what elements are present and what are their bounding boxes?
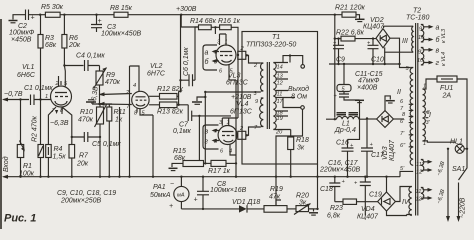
diode VD1: [239, 205, 247, 212]
svg-text:−: −: [170, 181, 174, 188]
tube VL2: [132, 91, 149, 108]
svg-text:100мкФ: 100мкФ: [9, 30, 35, 37]
node L1/VD3: [366, 117, 368, 119]
ground bus: [4, 176, 401, 178]
capacitor C17: [361, 118, 373, 176]
svg-text:~220В: ~220В: [460, 197, 467, 218]
wire: VD2 top to T2 winding III: [384, 26, 414, 28]
heater loop VL3: [203, 45, 217, 70]
svg-text:R18: R18: [296, 137, 309, 144]
wire: VD3 top: [385, 96, 390, 111]
svg-text:С19: С19: [369, 192, 382, 199]
svg-text:к VL3: к VL3: [441, 28, 447, 43]
svg-text:VL2: VL2: [150, 63, 163, 70]
potentiometer R9: [99, 66, 101, 105]
svg-text:ТПП303-220-50: ТПП303-220-50: [246, 42, 296, 49]
potentiometer R1: [20, 100, 22, 177]
svg-text:R8 15к: R8 15к: [110, 5, 133, 12]
svg-text:1,5к: 1,5к: [53, 154, 67, 161]
svg-text:6,8к: 6,8к: [327, 213, 341, 220]
svg-text:R16 1к: R16 1к: [218, 18, 241, 25]
node: R6/C4: [63, 64, 65, 66]
svg-text:+: +: [98, 18, 102, 25]
svg-text:47к: 47к: [269, 194, 281, 201]
T2 winding II: [410, 68, 413, 166]
wire top bus right: [128, 14, 342, 16]
svg-text:РА1: РА1: [153, 184, 166, 191]
resistor R11: [107, 107, 112, 121]
resistor R4: [48, 107, 56, 177]
T2 heater winding 11"/12": [421, 188, 424, 200]
potentiometer R10: [97, 107, 104, 124]
svg-text:R23: R23: [330, 205, 343, 212]
T1 secondary taps: [273, 63, 295, 130]
wire: T1 pin3 to +210V node: [205, 91, 260, 93]
svg-text:6Н7С: 6Н7С: [147, 71, 166, 78]
svg-text:R20: R20: [296, 193, 309, 200]
svg-text:С6 0,1мк: С6 0,1мк: [183, 47, 190, 76]
lamp HL1: [423, 141, 456, 142]
svg-text:С1 0,1мк: С1 0,1мк: [24, 85, 53, 92]
capacitor C9: [337, 37, 339, 39]
T2 core: [416, 23, 418, 216]
T1 core: [267, 62, 269, 129]
capacitor C19: [360, 177, 371, 216]
svg-text:R10: R10: [80, 109, 93, 116]
svg-text:С16: С16: [336, 140, 349, 147]
wire top bus left: [39, 14, 45, 16]
resistor R21: [334, 14, 336, 16]
wire / ground hook near R10: [92, 103, 112, 105]
capacitor C3: [91, 15, 102, 32]
svg-text:С17: С17: [371, 152, 385, 159]
wire: [60, 14, 114, 16]
svg-text:а: а: [205, 50, 209, 57]
svg-text:R15: R15: [173, 148, 186, 155]
trimmer R20: [287, 208, 296, 210]
svg-text:~6,3В: ~6,3В: [50, 120, 69, 127]
wire: long verticals to ground bus: [120, 66, 154, 177]
svg-text:С10: С10: [371, 57, 384, 64]
node: R5/R6 junction: [63, 14, 65, 16]
svg-text:II: II: [397, 89, 401, 96]
inductor L1: [337, 112, 359, 114]
resistor R6: [63, 15, 65, 66]
svg-text:200мк×250В: 200мк×250В: [60, 198, 102, 205]
svg-text:R6: R6: [69, 35, 78, 42]
tube VL4: [218, 126, 237, 145]
diode bridge VD3: [377, 111, 394, 128]
resistor R2: [40, 100, 42, 177]
wire: VD4 bottom: [387, 211, 407, 216]
svg-text:в: в: [205, 129, 209, 136]
resistor R22: [335, 38, 341, 40]
capacitor C1: [31, 95, 51, 106]
capacitor C2: [19, 10, 39, 21]
svg-text:ТС-180: ТС-180: [406, 15, 429, 22]
capacitor C8: [197, 177, 209, 209]
svg-text:0,1мк: 0,1мк: [173, 128, 192, 135]
svg-text:III: III: [402, 38, 408, 45]
wire: R12/R13 right join: [177, 91, 188, 105]
resistor R15: [183, 161, 204, 167]
resistor R17: [204, 162, 212, 164]
ground (top-left, C2): [13, 15, 19, 20]
svg-text:12: 12: [277, 81, 284, 87]
T2 winding III: [412, 26, 414, 52]
svg-text:20к: 20к: [68, 42, 81, 49]
capacitor C7: [188, 105, 231, 121]
T2 heater winding a/b: [421, 25, 424, 42]
wire: mains second lead with arrow: [447, 149, 449, 218]
T2 primary winding I: [423, 89, 426, 141]
capacitor block C11-C15: [343, 64, 345, 85]
svg-text:R14 68к: R14 68к: [190, 18, 217, 25]
meter PA1: [180, 177, 182, 209]
svg-text:+: +: [31, 15, 35, 22]
wire: VL3 anode to T1 pin2: [238, 51, 246, 59]
resistor R8: [114, 12, 128, 17]
svg-text:11': 11': [416, 189, 424, 195]
svg-text:11: 11: [277, 92, 283, 98]
svg-text:8 Ом: 8 Ом: [291, 94, 307, 101]
svg-text:20к: 20к: [76, 161, 89, 168]
scan edge artifact: [0, 19, 2, 229]
wire: C6 to R14 branch vertical: [195, 27, 199, 80]
svg-text:10: 10: [418, 35, 425, 41]
svg-text:R21 120к: R21 120к: [335, 5, 365, 12]
svg-text:Т2: Т2: [413, 8, 421, 15]
svg-text:Вход: Вход: [2, 156, 10, 172]
T1 secondary winding: [273, 63, 276, 130]
svg-text:КЦ407: КЦ407: [389, 139, 396, 161]
potentiometer R19: [264, 206, 287, 213]
svg-text:6П13С: 6П13С: [230, 109, 253, 116]
svg-text:1: 1: [45, 94, 48, 100]
svg-text:КЦ407: КЦ407: [357, 214, 379, 221]
svg-text:г: г: [205, 139, 209, 146]
node: C3 junction: [95, 14, 97, 16]
svg-text:VD4: VD4: [361, 206, 375, 213]
capacitor C10: [372, 37, 374, 39]
svg-text:×450В: ×450В: [11, 37, 32, 44]
wire: ground bus right end to T2 tap 5': [400, 171, 407, 176]
resistor R7: [62, 107, 72, 177]
capacitor C18: [334, 176, 336, 178]
svg-text:Т1: Т1: [272, 34, 280, 41]
svg-text:~0,7В: ~0,7В: [4, 91, 23, 98]
transformer T1 outline: [242, 32, 318, 165]
wire: VD3 right to T2 tap: [393, 118, 404, 120]
resistor R13: [149, 104, 159, 106]
wire: VL4 anode to T1 pin7: [238, 131, 246, 139]
node +300V: [180, 14, 182, 16]
ground hook at 210V line: [197, 97, 205, 101]
svg-text:SA1: SA1: [452, 166, 465, 173]
wire: R16 to screen line: [215, 27, 238, 118]
diode bridge VD2: [376, 29, 390, 48]
svg-text:+: +: [194, 197, 198, 204]
svg-text:+210В: +210В: [231, 94, 252, 101]
svg-text:R13 82к: R13 82к: [157, 109, 184, 116]
svg-text:50мкА: 50мкА: [150, 192, 171, 199]
svg-text:19: 19: [277, 116, 283, 122]
wire: VL1 pin5 anode to R6/C4 node: [63, 66, 66, 87]
ground after R20: [309, 209, 314, 212]
node R9 bottom: [98, 103, 100, 105]
svg-text:47мкФ: 47мкФ: [358, 78, 380, 85]
svg-text:R22 6,8к: R22 6,8к: [336, 30, 365, 37]
svg-text:С9: С9: [336, 57, 345, 64]
capacitor C5: [72, 132, 100, 142]
svg-text:9: 9: [255, 99, 258, 105]
tube VL1: [51, 86, 72, 107]
svg-text:Рис. 1: Рис. 1: [4, 213, 36, 225]
T2 heater winding v/g: [421, 48, 424, 65]
T1 primary winding: [261, 63, 264, 91]
wire: VD2 bottom / C9 C10 bottom rail: [329, 52, 410, 67]
svg-text:КЦ407: КЦ407: [363, 24, 385, 31]
svg-text:R7: R7: [79, 153, 89, 160]
svg-text:в: в: [436, 48, 440, 55]
input arrow ~0,7V: [4, 99, 30, 101]
svg-text:220мк×450В: 220мк×450В: [319, 167, 361, 174]
svg-text:С5 0,1мк: С5 0,1мк: [92, 141, 121, 148]
svg-text:+: +: [169, 203, 173, 210]
svg-text:14: 14: [277, 65, 283, 71]
svg-text:68к: 68к: [174, 155, 186, 162]
diode bridge VD4: [378, 192, 396, 211]
svg-text:R5 30к: R5 30к: [41, 4, 64, 11]
resistor R5: [45, 12, 60, 17]
node: grid VL1: [39, 98, 41, 100]
svg-text:R19: R19: [270, 186, 283, 193]
svg-text:R1: R1: [23, 163, 32, 170]
node: C2/R3 junction: [39, 14, 41, 16]
svg-text:к VL4: к VL4: [441, 52, 447, 66]
svg-text:68к: 68к: [45, 42, 57, 49]
svg-text:12': 12': [416, 197, 424, 203]
svg-text:С18: С18: [320, 186, 333, 193]
capacitor C6: [181, 74, 196, 86]
resistor R12: [149, 95, 159, 97]
svg-text:11': 11': [416, 162, 424, 168]
wire: vertical mid-right: [317, 164, 319, 209]
wire: right supply vertical: [334, 15, 336, 118]
svg-text:г: г: [436, 60, 440, 67]
resistor R3: [40, 15, 42, 100]
wire: +300V vertical: [180, 15, 182, 92]
wire: 210V vertical: [204, 92, 206, 163]
svg-text:100мк×450В: 100мк×450В: [101, 31, 142, 38]
wire: VD4 right to T2 winding IV: [395, 187, 407, 202]
svg-text:R4: R4: [54, 146, 63, 153]
svg-text:VL1: VL1: [22, 64, 35, 71]
svg-text:FU1: FU1: [440, 85, 453, 92]
resistor R23: [335, 201, 343, 203]
capacitor C4: [64, 60, 99, 71]
svg-text:13: 13: [277, 74, 284, 80]
svg-text:3к: 3к: [297, 145, 305, 152]
svg-text:VD1 Д18: VD1 Д18: [232, 199, 260, 206]
svg-text:20: 20: [275, 130, 283, 136]
wire: VL1 pin2 anode stub: [58, 76, 60, 86]
resistor R18: [290, 130, 292, 177]
resistor R14: [181, 15, 198, 27]
capacitor C16: [342, 139, 354, 176]
wire: riser to C16: [348, 100, 360, 139]
output terminals: [289, 54, 291, 56]
lower bus: [181, 208, 239, 210]
T2 heater winding 11'/12': [421, 160, 424, 172]
svg-text:12': 12': [416, 170, 424, 176]
svg-text:4: 4: [133, 83, 136, 89]
fuse FU1: [423, 79, 438, 89]
tube VL3: [216, 45, 236, 65]
svg-text:а: а: [436, 25, 440, 32]
svg-text:Выход: Выход: [288, 85, 309, 93]
svg-text:R17 1к: R17 1к: [208, 168, 231, 175]
svg-text:С4 0,1мк: С4 0,1мк: [76, 53, 105, 60]
resistor R16: [211, 26, 219, 28]
svg-text:470к: 470к: [105, 79, 121, 86]
svg-text:10': 10': [417, 58, 425, 64]
svg-text:R9: R9: [106, 72, 115, 79]
T2 winding IV: [409, 187, 412, 216]
svg-text:1: 1: [225, 40, 228, 46]
svg-text:С9, С10, С18, С19: С9, С10, С18, С19: [57, 190, 116, 197]
heater loop VL4: [203, 125, 219, 149]
svg-text:6Н6С: 6Н6С: [17, 72, 36, 79]
svg-text:+300В: +300В: [176, 6, 197, 13]
svg-text:Др-0,4: Др-0,4: [334, 127, 356, 134]
svg-text:100мк×16В: 100мк×16В: [210, 187, 247, 194]
svg-text:9: 9: [419, 27, 422, 33]
feedback wire from output to R19 tap: [276, 109, 303, 205]
ground at VD3 top: [386, 100, 395, 102]
svg-text:R2 470к: R2 470к: [32, 115, 39, 142]
svg-text:470к: 470к: [78, 117, 94, 124]
svg-text:×400В: ×400В: [357, 85, 378, 92]
svg-text:R3: R3: [45, 35, 54, 42]
svg-text:3к: 3к: [299, 200, 307, 207]
svg-text:2А: 2А: [442, 93, 452, 100]
svg-text:мА: мА: [177, 193, 185, 199]
